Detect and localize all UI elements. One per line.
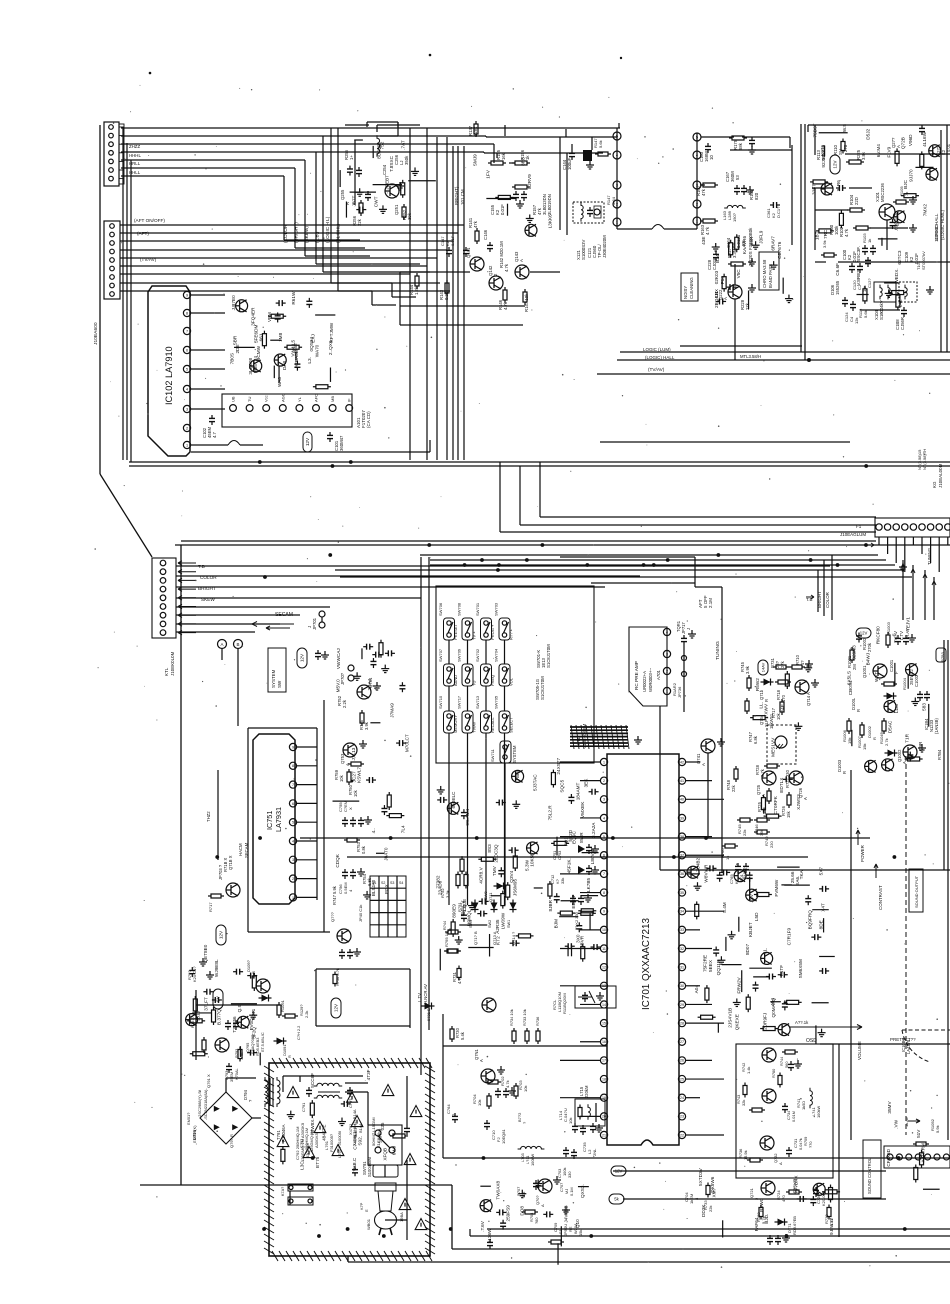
svg-text:5.64: 5.64	[611, 196, 616, 205]
trimmer cluster right of matrix	[550, 844, 599, 930]
svg-text:16k: 16k	[501, 152, 506, 160]
resistor R745-R760 cluster	[720, 661, 774, 884]
switch SW791	[362, 1125, 402, 1177]
svg-text:10k: 10k	[477, 1099, 482, 1106]
svg-text:5E2D: 5E2D	[568, 829, 573, 841]
fuse F791	[281, 1184, 313, 1196]
svg-text:3: 3	[603, 798, 605, 802]
wire below tuner	[191, 440, 430, 452]
svg-text:5136W: 5136W	[487, 1228, 492, 1243]
svg-text:9.EWX7: 9.EWX7	[829, 1217, 834, 1235]
svg-text:4.7k: 4.7k	[504, 263, 509, 272]
svg-text:8D07: 8D07	[745, 943, 750, 955]
svg-text:SW701: SW701	[475, 602, 480, 616]
mid cluster Y extra	[750, 664, 812, 818]
label CONTRAST	[874, 864, 883, 910]
svg-text:A701: A701	[656, 669, 661, 680]
wire tuning	[560, 557, 722, 872]
svg-text:4: 4	[292, 839, 294, 843]
svg-text:QQ11R: QQ11R	[716, 959, 721, 975]
svg-text:BRIGHT): BRIGHT)	[454, 186, 459, 205]
wire speck	[149, 54, 621, 782]
svg-text:TMV: TMV	[492, 865, 497, 876]
svg-text:5.6k: 5.6k	[598, 139, 603, 148]
wire bus top2	[121, 136, 617, 137]
label JP40	[358, 904, 363, 922]
svg-text:A04: A04	[694, 985, 699, 994]
svg-text:Vcc: Vcc	[264, 395, 269, 402]
svg-text:4L16W: 4L16W	[922, 131, 927, 146]
svg-text:R736: R736	[535, 1017, 540, 1026]
svg-text:-SC2N2318A(8A)-: -SC2N2318A(8A)-	[203, 1088, 208, 1120]
svg-text:KT2: KT2	[495, 936, 500, 945]
svg-text:2DA4: 2DA4	[367, 678, 372, 690]
op-amp U IC751 LA7931	[253, 734, 297, 904]
svg-text:SW703: SW703	[494, 602, 499, 616]
power box parts	[281, 1069, 408, 1176]
svg-text:42: 42	[680, 760, 684, 764]
connector IF pins right	[693, 133, 701, 225]
svg-text:SW713: SW713	[475, 695, 480, 709]
wire bus to F1 a	[540, 462, 876, 517]
svg-text:12V: 12V	[615, 1168, 623, 1173]
op-amp U IC701 QXXAAC7213	[600, 754, 685, 1145]
svg-text:10k: 10k	[339, 774, 344, 782]
label THZ2 HACM	[206, 770, 249, 860]
warning triangles extra	[287, 1087, 427, 1230]
svg-text:Q71B X: Q71B X	[228, 855, 233, 870]
svg-text:0.1M: 0.1M	[569, 1187, 574, 1196]
keypad matrix	[370, 876, 406, 937]
parts left of IC701 upper	[547, 757, 600, 961]
wire OSD right edge	[838, 1044, 840, 1237]
svg-text:CT0RFK: CT0RFK	[773, 795, 778, 814]
svg-text:CFJX3D: CFJX3D	[886, 1148, 891, 1166]
wire lower left border	[180, 545, 182, 1185]
svg-text:1.4k: 1.4k	[746, 1067, 751, 1074]
Q222 area extra	[714, 251, 753, 308]
pill 5k bottom	[609, 1194, 624, 1204]
op-amp U IC102 LA7910	[148, 286, 191, 456]
svg-text:4.7: 4.7	[212, 431, 217, 438]
svg-text:SW704: SW704	[494, 648, 499, 662]
svg-text:0.01F: 0.01F	[450, 235, 455, 246]
svg-text:B4WJ: B4WJ	[865, 653, 870, 666]
svg-text:J8AT0: J8AT0	[384, 847, 389, 861]
svg-text:8: 8	[186, 311, 188, 315]
svg-text:2M: 2M	[852, 664, 857, 670]
svg-text:3.2A2A: 3.2A2A	[591, 822, 596, 838]
svg-text:MB: MB	[330, 396, 335, 402]
wire logic bus3	[617, 359, 950, 362]
svg-text:RKCF80: RKCF80	[876, 626, 881, 644]
pill 12V bottom	[611, 1166, 626, 1176]
svg-text:R780: R780	[771, 1068, 776, 1078]
svg-text:WFT: WFT	[874, 672, 879, 682]
svg-text:RC PRE AMP: RC PRE AMP	[634, 661, 639, 690]
wire long vertical pair	[421, 557, 429, 1075]
svg-text:51V: 51V	[916, 1129, 921, 1138]
svg-text:YL: YL	[297, 396, 302, 402]
svg-text:1: 1	[603, 760, 605, 764]
IF block cluster	[696, 136, 792, 250]
svg-text:C146: C146	[483, 229, 488, 240]
svg-text:14AV: 14AV	[760, 662, 765, 672]
svg-text:12V: 12V	[219, 930, 224, 939]
svg-text:R733 10k: R733 10k	[522, 1009, 527, 1026]
bridge rectifier D794	[186, 1089, 253, 1148]
svg-text:BRIGHT: BRIGHT	[817, 591, 822, 608]
svg-text:JS6M95: JS6M95	[512, 879, 517, 897]
resistor R155 R156 cluster	[488, 144, 552, 215]
svg-text:Q753: Q753	[340, 753, 345, 764]
svg-text:D794: D794	[243, 1089, 248, 1100]
svg-text:BL9JA0: BL9JA0	[371, 879, 376, 896]
svg-text:S3: S3	[390, 881, 394, 885]
svg-text:8WR: 8WR	[579, 832, 584, 843]
svg-text:2: 2	[292, 877, 294, 881]
svg-text:S1C8J1T0M: S1C8J1T0M	[540, 676, 545, 700]
svg-text:EDTLX: EDTLX	[779, 777, 784, 793]
svg-text:C2RV9: C2RV9	[527, 174, 532, 189]
svg-text:R1003: R1003	[886, 621, 891, 634]
svg-text:C1002: C1002	[914, 674, 919, 687]
svg-text:4: 4	[186, 387, 188, 391]
svg-text:V96D: V96D	[908, 134, 913, 146]
svg-text:25: 25	[680, 1077, 684, 1081]
svg-text:S1000S3V: S1000S3V	[581, 240, 586, 260]
label LOGIC LUM	[643, 347, 761, 360]
svg-text:T1R: T1R	[905, 733, 910, 742]
wire mid right 1	[660, 869, 950, 871]
svg-text:CDQK: CDQK	[335, 853, 340, 867]
svg-text:12: 12	[602, 965, 606, 969]
svg-text:SECAM: SECAM	[275, 612, 293, 618]
wire bus to F1 b	[500, 462, 876, 532]
plug WB01	[359, 1165, 404, 1235]
label ZHZZ	[129, 144, 141, 175]
svg-text:CHRO MA3.58: CHRO MA3.58	[762, 259, 767, 288]
svg-text:COLOR: COLOR	[825, 591, 830, 608]
svg-text:2.2k: 2.2k	[304, 1011, 309, 1018]
svg-text:0QS34: 0QS34	[309, 337, 314, 352]
svg-text:L.TV: L.TV	[417, 993, 422, 1002]
label LOGIC HALL right	[934, 209, 945, 240]
svg-text:1+: 1+	[349, 155, 354, 160]
capacitor system	[315, 650, 329, 660]
svg-text:2DE: 2DE	[235, 344, 240, 353]
wire IC102 pins	[191, 295, 263, 445]
svg-text:EDX: EDX	[384, 883, 389, 894]
svg-text:EB35F: EB35F	[571, 894, 576, 908]
svg-text:8DE: 8DE	[819, 920, 824, 929]
svg-text:4..: 4..	[371, 828, 376, 833]
svg-text:BJM: BJM	[554, 919, 559, 928]
svg-text:3LB019DN: 3LB019DN	[547, 194, 552, 215]
svg-text:NT(3.58)TH: NT(3.58)TH	[922, 449, 927, 470]
parts at A701 pins	[672, 630, 696, 712]
svg-text:0.2k: 0.2k	[444, 291, 449, 300]
wire bus top3	[121, 143, 494, 145]
svg-text:BQ9FRQ: BQ9FRQ	[807, 910, 812, 930]
label KG	[932, 463, 943, 488]
svg-text:L3KK6: L3KK6	[547, 214, 552, 228]
svg-text:Q1001: Q1001	[862, 665, 867, 678]
label SOUND OUTPUT	[909, 869, 923, 912]
svg-text:Q.9: Q.9	[237, 1004, 242, 1012]
transistor Q741 lower	[660, 706, 725, 870]
svg-text:RECALL: RECALL	[490, 717, 495, 733]
svg-text:JP40 C1k: JP40 C1k	[358, 904, 363, 922]
svg-text:F4E: F4E	[780, 704, 785, 713]
wire mid bundle	[410, 128, 464, 460]
svg-text:3: 3	[186, 407, 188, 411]
svg-text:8: 8	[603, 891, 605, 895]
svg-text:J10EAL00M: J10EAL00M	[938, 463, 943, 488]
svg-text:22k: 22k	[708, 1205, 713, 1212]
svg-text:Q721: Q721	[749, 1187, 754, 1198]
svg-text:820: 820	[754, 192, 759, 200]
svg-text:SECAM: SECAM	[244, 842, 249, 858]
IC751 top area	[336, 640, 406, 723]
wire bottom frame 4	[452, 1185, 950, 1249]
svg-text:101 CM: 101 CM	[460, 189, 465, 205]
svg-text:4847TE: 4847TE	[321, 1125, 326, 1141]
svg-text:L3.: L3.	[307, 357, 312, 364]
svg-text:?80: ?80	[534, 1217, 539, 1224]
svg-text:RT? +: RT? +	[509, 628, 514, 640]
svg-text:JP717: JP717	[681, 622, 686, 634]
svg-text:14: 14	[602, 1003, 606, 1007]
svg-text:1: 1	[186, 443, 188, 447]
svg-text:R: R	[764, 699, 769, 702]
svg-text:890E9: 890E9	[452, 904, 457, 918]
svg-text:2BQ4J1: 2BQ4J1	[714, 291, 719, 308]
svg-text:M5V.0: M5V.0	[336, 679, 341, 693]
svg-text:AFC: AFC	[314, 394, 319, 402]
svg-text:43E: 43E	[701, 237, 706, 245]
filter X104 T101 cluster	[815, 239, 950, 330]
svg-text:T65T: T65T	[293, 342, 298, 353]
label KT1	[576, 723, 587, 748]
svg-text:6: 6	[603, 854, 605, 858]
svg-text:150?: 150?	[732, 212, 737, 222]
svg-text:3: 3	[616, 183, 618, 188]
IF section parts	[701, 230, 793, 309]
svg-text:22k: 22k	[357, 218, 362, 226]
svg-text:BJC: BJC	[903, 179, 908, 188]
svg-text:CB76T6: CB76T6	[777, 241, 782, 259]
svg-text:35MV: 35MV	[887, 1101, 892, 1114]
svg-text:24: 24	[680, 1096, 684, 1100]
svg-text:POWER: POWER	[860, 844, 865, 862]
svg-text:ET.5.6BL/C: ET.5.6BL/C	[260, 1032, 265, 1052]
svg-text:SW708: SW708	[457, 602, 462, 616]
svg-text:10k: 10k	[568, 1117, 573, 1124]
svg-text:D1003: D1003	[837, 759, 842, 772]
svg-text:FREQ: FREQ	[490, 675, 495, 686]
svg-text:SM6X5M: SM6X5M	[798, 959, 803, 978]
svg-text:1: 1	[666, 689, 668, 693]
transistor Q753 cluster	[334, 710, 369, 797]
warning triangles	[277, 1085, 422, 1210]
label IC1051	[901, 1030, 950, 1062]
svg-text:A: A	[723, 297, 728, 300]
svg-text:47k: 47k	[473, 220, 478, 228]
svg-text:Q9R: Q9R	[918, 741, 923, 751]
svg-text:SW711: SW711	[490, 748, 495, 762]
svg-text:AGC: AGC	[280, 393, 285, 402]
svg-text:CLEANING: CLEANING	[689, 277, 694, 299]
svg-text:15.9k: 15.9k	[743, 1150, 748, 1160]
svg-text:A: A	[519, 259, 524, 262]
capacitor C755 C756 cluster	[332, 800, 372, 905]
svg-text:2.2k: 2.2k	[342, 699, 347, 708]
svg-text:J7L13: J7L13	[351, 747, 356, 760]
bottom right extra	[698, 1167, 840, 1237]
svg-text:6V.M4: 6V.M4	[876, 144, 881, 158]
svg-text:IF: IF	[347, 398, 352, 402]
svg-text:7DW8X.: 7DW8X.	[310, 1118, 315, 1135]
transformer T791	[265, 1077, 286, 1142]
svg-text:MTL3.58/H: MTL3.58/H	[740, 354, 761, 359]
svg-text:8: 8	[292, 764, 294, 768]
svg-text:KSWL7: KSWL7	[356, 767, 361, 783]
svg-text:33: 33	[680, 928, 684, 932]
svg-text:Q732: Q732	[773, 1153, 778, 1163]
svg-text:Q251: Q251	[394, 204, 399, 215]
power supply box	[264, 1058, 435, 1261]
svg-text:4: 4	[666, 630, 668, 634]
svg-text:3: 3	[666, 652, 668, 656]
svg-text:UB: UB	[231, 396, 236, 402]
svg-text:E30MC: E30MC	[894, 210, 899, 226]
svg-text:TW0AX8: TW0AX8	[496, 1180, 501, 1199]
connector J101	[104, 122, 124, 186]
svg-text:2: 2	[186, 426, 188, 430]
transistor Q222 cluster	[681, 247, 779, 360]
svg-text:5: 5	[186, 367, 188, 371]
svg-text:X4T: X4T	[820, 903, 825, 912]
svg-text:29: 29	[680, 1003, 684, 1007]
svg-text:TV/AV: TV/AV	[893, 631, 898, 643]
capacitor C709 cluster	[487, 1167, 583, 1249]
svg-text:3: 3	[292, 858, 294, 862]
svg-text:27k: 27k	[780, 660, 785, 668]
svg-text:23AD6: 23AD6	[437, 880, 442, 895]
wire mid right 2	[708, 837, 722, 839]
svg-text:0.8k: 0.8k	[361, 845, 366, 854]
svg-text:752: 752	[379, 141, 384, 149]
svg-text:FAF64: FAF64	[754, 1217, 759, 1231]
transistor Q7N1 cluster	[446, 1049, 544, 1166]
svg-text:C764: C764	[446, 1104, 451, 1114]
svg-text:22k: 22k	[731, 784, 736, 792]
label VOLUME	[857, 1041, 862, 1060]
svg-text:Q725: Q725	[756, 784, 761, 795]
svg-text:SW2: SW2	[488, 920, 492, 928]
jumper JP701	[307, 611, 325, 630]
svg-text:8S3: 8S3	[487, 844, 492, 853]
svg-text:3.9k: 3.9k	[364, 721, 369, 730]
svg-text:02K03: 02K03	[714, 270, 719, 284]
svg-text:45F1K.: 45F1K.	[566, 858, 571, 873]
svg-text:DD3K: DD3K	[701, 1204, 706, 1217]
svg-text:4.7k: 4.7k	[844, 228, 849, 237]
svg-text:XJWS3: XJWS3	[796, 794, 801, 810]
svg-text:WB01: WB01	[366, 1218, 371, 1230]
svg-text:DQ8: DQ8	[520, 1206, 525, 1216]
svg-text:J30E4020M: J30E4020M	[602, 235, 607, 258]
svg-text:H.NCR.AV: H.NCR.AV	[423, 984, 428, 1004]
label POWER	[856, 830, 865, 862]
label SW705LG	[535, 676, 545, 700]
svg-text:228k: 228k	[473, 126, 478, 136]
svg-text:9CMW: 9CMW	[256, 345, 261, 360]
svg-text:EM01?: EM01?	[186, 1112, 191, 1125]
svg-text:S4: S4	[399, 881, 403, 885]
wire logic bus1	[680, 345, 802, 347]
switch matrix SW701-SW710	[436, 586, 594, 763]
svg-text:9: 9	[292, 745, 294, 749]
svg-text:(LOGIC) HALL: (LOGIC) HALL	[645, 355, 675, 360]
svg-text:-2SC2988(Y)-S/: -2SC2988(Y)-S/	[197, 1089, 202, 1118]
transistor bottom left cluster	[330, 911, 361, 959]
svg-text:NOISY: NOISY	[683, 286, 688, 299]
svg-text:Q711: Q711	[488, 892, 493, 902]
svg-text:SMJ9: SMJ9	[472, 154, 477, 166]
svg-text:2: 2	[603, 779, 605, 783]
resistor R1052	[904, 1116, 940, 1146]
wire top bundle lower	[335, 555, 912, 583]
svg-text:100kW: 100kW	[816, 1106, 821, 1118]
svg-text:242: 242	[898, 299, 903, 307]
svg-text:CJ56R: CJ56R	[900, 317, 905, 330]
svg-text:J3FL9: J3FL9	[759, 230, 764, 243]
wire bus top1	[121, 127, 620, 129]
svg-text:2DR9FJ: 2DR9FJ	[763, 1013, 768, 1030]
svg-text:0.01: 0.01	[946, 143, 950, 152]
svg-text:12V: 12V	[860, 630, 868, 635]
svg-text:(CA CD): (CA CD)	[366, 411, 371, 428]
svg-text:270k: 270k	[867, 642, 872, 652]
label SYSTEM SW	[268, 648, 286, 692]
svg-text:MES1VV: MES1VV	[771, 737, 776, 757]
wire lower top edge	[175, 544, 950, 546]
svg-text:A: A	[221, 642, 224, 647]
svg-text:220: 220	[769, 841, 774, 848]
svg-text:C12?: C12?	[867, 278, 872, 288]
svg-text:2.7k: 2.7k	[884, 737, 889, 746]
svg-text:TV/AV: TV/AV	[472, 721, 477, 733]
svg-text:Q7??: Q7??	[330, 911, 335, 922]
svg-text:7L4: 7L4	[401, 825, 406, 833]
transistor X101 cluster	[808, 125, 950, 262]
label KTL pins	[198, 564, 217, 602]
svg-text:HACM: HACM	[238, 843, 243, 856]
svg-text:MEMORY: MEMORY	[453, 715, 458, 733]
svg-text:9731 E: 9731 E	[426, 1008, 431, 1021]
connector KTL	[152, 558, 196, 638]
svg-text:F25XR: F25XR	[792, 1178, 797, 1193]
svg-text:B.377Q: B.377Q	[217, 1009, 222, 1025]
wire bus 442	[600, 441, 850, 443]
svg-text:S100488M: S100488M	[367, 1156, 372, 1177]
wire hop link	[617, 221, 697, 229]
svg-text:R142 M20.1M: R142 M20.1M	[499, 241, 504, 268]
svg-text:R61W: R61W	[291, 291, 296, 305]
svg-text:BXW0: BXW0	[759, 1198, 764, 1212]
